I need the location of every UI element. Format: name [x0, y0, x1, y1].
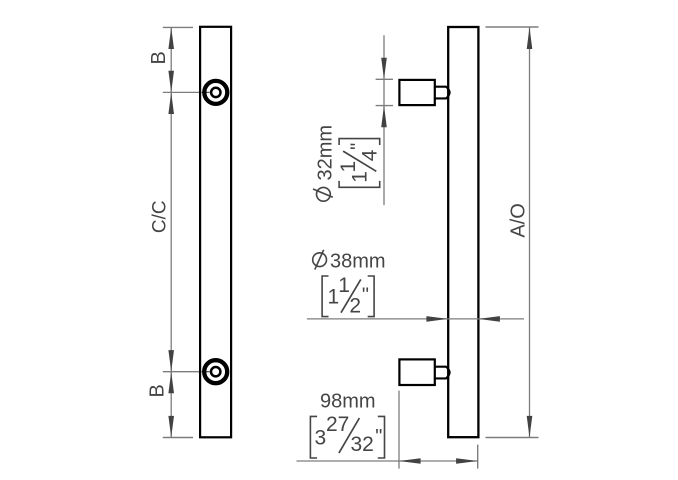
- svg-text:B: B: [148, 51, 170, 64]
- wire: bottom hole center line inner segment: [202, 371, 210, 373]
- svg-text:1: 1: [337, 161, 360, 173]
- svg-text:": ": [348, 143, 370, 150]
- svg-text:4: 4: [358, 149, 381, 161]
- wire: extension tick top-left: [163, 26, 193, 28]
- svg-text:32: 32: [351, 433, 374, 456]
- label: bracket [3 27/32"] group: [310, 413, 384, 458]
- label: bracket [1 1/4"] rotated group: [337, 139, 381, 188]
- arrow: C/C down at y=371.7: [168, 350, 174, 372]
- arrow: A/O down at y=437.5: [527, 416, 533, 438]
- wire: dia38 horizontal dimension line: [307, 318, 524, 320]
- arrow: B bottom, down at y=437.5: [168, 416, 174, 438]
- top hole inner circle: [211, 88, 220, 97]
- bottom post rectangle: [399, 359, 434, 385]
- svg-text:98mm: 98mm: [320, 391, 376, 413]
- arrow: dia38 left at bar right edge: [478, 316, 500, 322]
- wire: post bottom extension tick: [376, 105, 393, 107]
- top post neck: [434, 87, 450, 99]
- wire: top hole center line: [163, 91, 199, 93]
- svg-text:27: 27: [326, 413, 349, 436]
- svg-text:": ": [362, 284, 369, 306]
- wire: top hole center line inner segment: [202, 91, 210, 93]
- svg-text:38mm: 38mm: [330, 251, 386, 273]
- wire: bottom hole center line: [163, 371, 199, 373]
- arrow: C/C up at y=92.4: [168, 92, 174, 114]
- wire: 98mm horizontal dimension line: [297, 460, 478, 462]
- arrow: dia32 up at y=105.6: [381, 106, 387, 128]
- svg-text:32mm: 32mm: [314, 125, 336, 181]
- wire: A/O dimension line vertical: [529, 27, 531, 438]
- wire: A/O bottom extension tick: [486, 437, 539, 439]
- arrow: B top, up at y=27.4: [168, 27, 174, 49]
- wire: dia32 leader vertical line: [383, 35, 385, 205]
- label: dia symbol for 32mm (circle + slash): [317, 187, 331, 201]
- svg-text:B: B: [146, 384, 168, 397]
- handle bar side view rectangle: [448, 27, 478, 437]
- label: bracket [1 1/2"] group: [322, 274, 374, 318]
- handle bar front view rectangle: [200, 27, 231, 438]
- wire: left dimension line vertical: [170, 27, 172, 437]
- svg-text:": ": [375, 426, 382, 448]
- arrow: 98mm right at x=477.7: [456, 458, 478, 464]
- svg-text:C/C: C/C: [150, 200, 171, 233]
- arrow: 98mm left at x=399: [399, 458, 421, 464]
- wire: extension tick bottom-left: [163, 437, 193, 439]
- arrow: B top, down at y=92.4: [168, 71, 174, 93]
- arrow: B bottom, up at y=371.7: [168, 372, 174, 394]
- bottom hole outer ring: [204, 360, 227, 383]
- top hole outer ring: [204, 81, 227, 104]
- svg-text:2: 2: [349, 295, 361, 318]
- arrow: A/O up at y=27: [527, 27, 533, 49]
- wire: A/O top extension tick: [486, 26, 539, 28]
- bottom post neck: [434, 367, 450, 379]
- arrow: dia38 right at bar left edge: [426, 316, 448, 322]
- bottom hole inner circle: [211, 367, 220, 376]
- wire: 98mm right tick at bar outer face: [477, 445, 479, 469]
- svg-text:3: 3: [315, 426, 327, 449]
- arrow: dia32 down at y=79.3: [381, 58, 387, 80]
- top post rectangle: [399, 80, 434, 105]
- svg-text:A/O: A/O: [507, 203, 529, 237]
- svg-text:1: 1: [338, 274, 350, 297]
- wire: 98mm extension line vertical: [398, 391, 400, 469]
- wire: post top extension tick: [376, 78, 393, 80]
- label: dia symbol for 38mm (circle + slash): [313, 253, 327, 267]
